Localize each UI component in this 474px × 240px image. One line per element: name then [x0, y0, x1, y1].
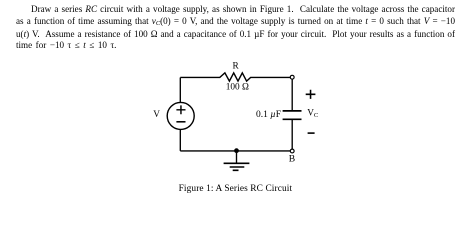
- svg-text:V: V: [153, 110, 160, 120]
- svg-text:100 Ω: 100 Ω: [226, 83, 249, 93]
- svg-text:B: B: [289, 154, 295, 165]
- svg-text:VC: VC: [307, 109, 319, 119]
- svg-text:0.1 µF: 0.1 µF: [256, 110, 281, 120]
- svg-text:Figure 1: A Series RC Circuit: Figure 1: A Series RC Circuit: [179, 184, 293, 194]
- svg-text:R: R: [232, 62, 239, 72]
